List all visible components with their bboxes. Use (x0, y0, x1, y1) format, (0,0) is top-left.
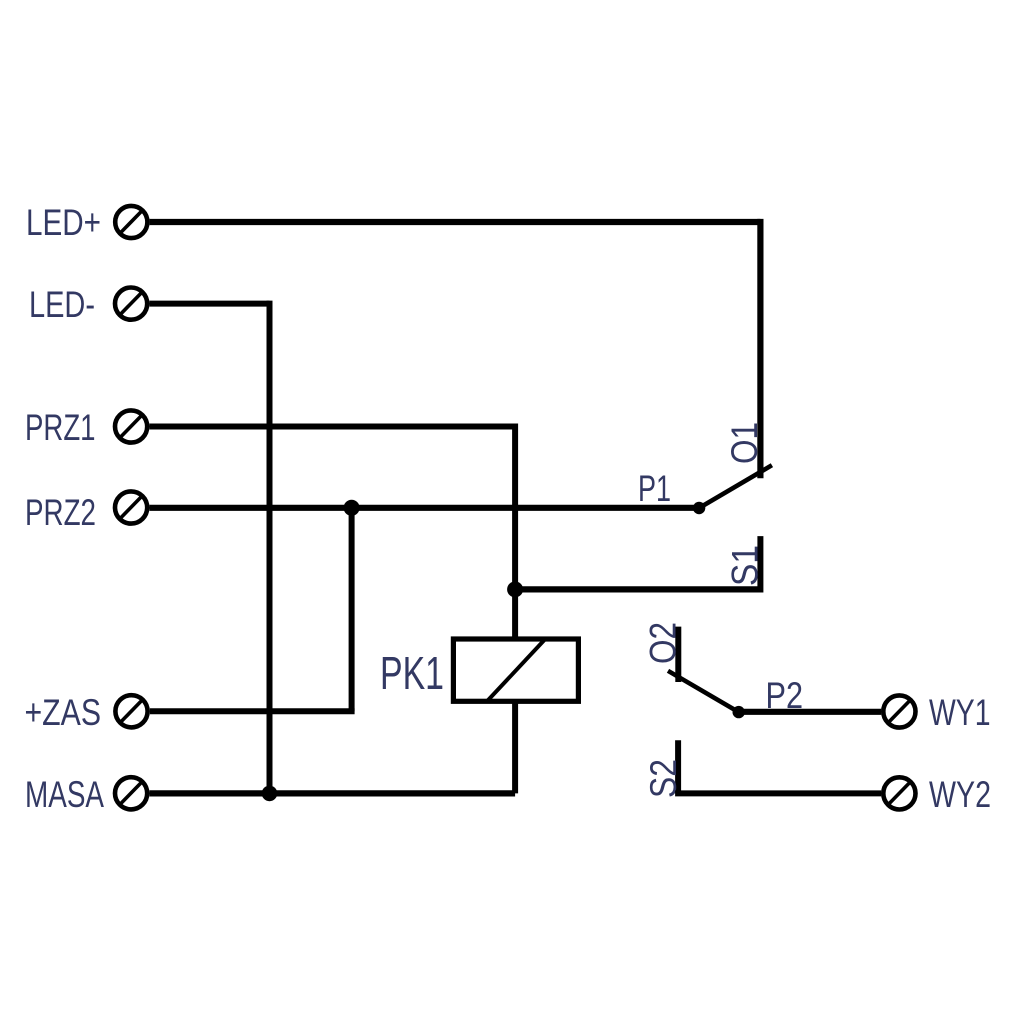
svg-text:PRZ2: PRZ2 (25, 492, 96, 533)
terminal +ZAS (115, 695, 147, 727)
wire S2 stub vertical (675, 740, 681, 793)
svg-text:WY1: WY1 (929, 692, 991, 733)
relay coil diagonal (487, 640, 544, 701)
wire MASA (149, 790, 515, 796)
terminal MASA (115, 777, 147, 809)
terminal WY1 (883, 695, 915, 727)
terminal PRZ1 (115, 410, 147, 442)
svg-text:+ZAS: +ZAS (25, 692, 102, 733)
switch P1 arm (699, 465, 772, 508)
terminal WY2 (883, 777, 915, 809)
svg-text:P2: P2 (766, 675, 804, 716)
relay coil PK1 box (453, 639, 578, 701)
wire S1 stub vertical (757, 536, 763, 592)
wire LED- vertical (267, 301, 273, 794)
svg-text:MASA: MASA (25, 774, 104, 815)
svg-text:S1: S1 (725, 545, 766, 586)
wire LED+ horizontal (150, 219, 761, 225)
svg-text:PRZ1: PRZ1 (25, 407, 96, 448)
svg-text:P1: P1 (638, 468, 671, 509)
wire relay coil bottom pin (512, 701, 518, 793)
wire +ZAS horizontal (150, 708, 355, 714)
wire +ZAS branch vertical (349, 508, 355, 712)
wire S2 to WY2 (675, 790, 881, 796)
terminal LED+ (115, 206, 147, 238)
wire PRZ2 to switch P1 (149, 505, 699, 511)
wire PRZ1 vertical / relay top pin (512, 424, 518, 640)
switch P2 common dot (733, 706, 745, 718)
junction dot S1 branch (507, 581, 523, 597)
wire P2 to WY1 (739, 709, 882, 715)
junction dot LED- / MASA (262, 786, 278, 802)
svg-text:O1: O1 (724, 422, 765, 464)
svg-text:LED+: LED+ (26, 202, 101, 243)
wire S1 horizontal (515, 586, 760, 592)
svg-text:PK1: PK1 (380, 647, 444, 699)
terminal LED- (115, 288, 147, 320)
junction dot +ZAS branch (344, 500, 360, 516)
switch P1 common dot (693, 502, 705, 514)
terminal PRZ2 (115, 491, 147, 523)
svg-text:LED-: LED- (29, 284, 95, 325)
svg-text:WY2: WY2 (929, 774, 991, 815)
wire LED- horizontal (149, 301, 269, 307)
wire PRZ1 horizontal (149, 424, 515, 430)
wire LED+ vertical to O1 contact (757, 219, 763, 478)
svg-text:O2: O2 (643, 622, 684, 664)
contact O2 vertical line (675, 627, 681, 682)
switch P2 arm (668, 671, 739, 712)
